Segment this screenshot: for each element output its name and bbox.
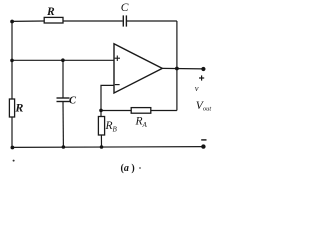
op-amp plus input marking bbox=[115, 56, 120, 62]
resistor RB bbox=[98, 117, 104, 136]
resistor R1 (top R) bbox=[44, 17, 63, 23]
node bottom-left junction bbox=[11, 146, 15, 150]
resistor RA bbox=[131, 108, 151, 114]
wire top-left segment bbox=[12, 20, 44, 22]
wire left rail lower bbox=[11, 117, 13, 147]
terminal output negative bbox=[201, 144, 205, 148]
svg-text:R: R bbox=[14, 100, 23, 114]
wire minus node to RA bbox=[101, 110, 131, 112]
wire inverting input bbox=[101, 85, 114, 110]
node mid-C bottom junction bbox=[62, 145, 66, 149]
capacitor C1 (top C) plates bbox=[123, 15, 126, 26]
wire mid C upper bbox=[62, 60, 64, 97]
node RB bottom junction bbox=[100, 145, 104, 149]
svg-text:C: C bbox=[121, 2, 129, 14]
op-amp minus input marking bbox=[115, 84, 120, 86]
capacitor C2 (mid C) plates bbox=[57, 98, 70, 102]
op-amp U1 triangle bbox=[114, 44, 162, 93]
label minus terminal bbox=[201, 139, 206, 141]
wire minus node to RB bbox=[100, 111, 102, 117]
node output junction bbox=[175, 67, 179, 71]
wire RA to right rail bbox=[151, 110, 177, 112]
svg-text:(a ): (a ) bbox=[121, 163, 135, 174]
svg-text:C: C bbox=[69, 96, 77, 107]
terminal output positive bbox=[201, 67, 205, 71]
node plus-input left junction bbox=[10, 59, 14, 63]
stray period after caption bbox=[139, 167, 141, 169]
svg-text:R: R bbox=[46, 6, 55, 18]
wire noninverting input bbox=[12, 59, 114, 61]
resistor R2 (left R) bbox=[9, 99, 14, 117]
stray speck bbox=[13, 160, 15, 162]
label plus terminal bbox=[199, 75, 204, 80]
node mid-C top junction bbox=[61, 58, 65, 62]
node minus junction bbox=[99, 109, 103, 113]
wire left rail upper bbox=[11, 21, 13, 99]
node top-left junction bbox=[10, 20, 14, 24]
wire R to C top bbox=[63, 20, 123, 22]
svg-text:v: v bbox=[195, 83, 199, 93]
wire C to top-right corner bbox=[127, 20, 177, 22]
wire bottom rail bbox=[12, 146, 204, 149]
wire mid C lower bbox=[62, 102, 64, 147]
wire right vertical (feedback rail) bbox=[176, 21, 178, 111]
wire output bbox=[162, 67, 203, 70]
wire RB to ground rail bbox=[100, 135, 102, 147]
